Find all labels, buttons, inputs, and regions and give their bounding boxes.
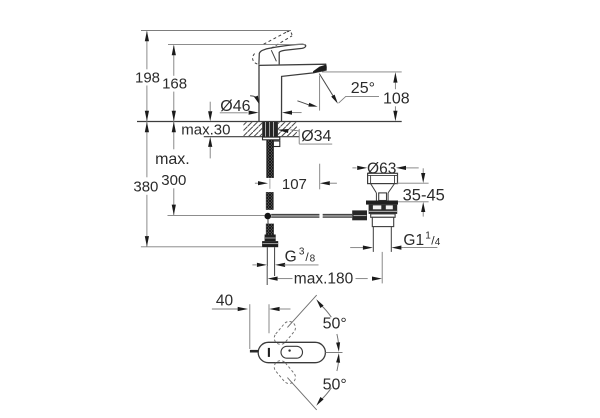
small arc arrow at faucet body left edge	[250, 96, 256, 97]
G3/8 hose end flange	[262, 241, 278, 247]
svg-text:50°: 50°	[323, 315, 347, 332]
drain tailpipe centerline extension	[381, 252, 383, 284]
svg-text:G11/4: G11/4	[403, 230, 440, 249]
faucet shank through countertop (dark)	[262, 122, 278, 137]
spout outlet dark wedge	[313, 65, 326, 73]
svg-text:108: 108	[383, 91, 410, 108]
small arc arrow at vertical line	[297, 101, 309, 105]
hose tail tube walls	[266, 247, 268, 285]
mounting tab right of rod	[273, 141, 279, 147]
drain body band	[371, 214, 395, 217]
dimension max30 line upper	[209, 102, 211, 112]
top view center tick	[268, 348, 270, 357]
drain side connector (dark)	[352, 210, 367, 220]
countertop hatching left of shank	[244, 122, 263, 136]
horizontal supply pipe	[271, 214, 319, 217]
countertop bottom line	[204, 136, 299, 138]
dimension 108 line	[394, 83, 396, 90]
drain neck taper	[371, 184, 395, 193]
dimension 40 line	[212, 308, 238, 310]
drain neck walls	[375, 193, 377, 201]
dia34 label box lines	[298, 129, 300, 144]
countertop hatching right of shank	[278, 122, 297, 136]
dimension 168 line	[173, 46, 175, 76]
107 extension line	[319, 164, 321, 190]
svg-text:50°: 50°	[323, 376, 347, 393]
drain push button	[379, 193, 387, 201]
supply hose upper segment (hatched)	[266, 192, 273, 210]
vertical reference line below spout tip	[319, 76, 321, 111]
40 extension line right (center)	[268, 304, 270, 333]
svg-text:380: 380	[133, 178, 158, 195]
junction dot on hose	[265, 213, 272, 220]
lever inner detail line	[271, 50, 276, 61]
dimension 35-45 extension lines	[397, 182, 429, 184]
G3/8 hose nut	[265, 235, 276, 242]
drain top cap	[368, 173, 398, 183]
dimension 35-45 line and arrows	[422, 168, 424, 173]
lever raised dashed arc at base	[253, 54, 259, 65]
25 degree stream line	[319, 74, 334, 99]
supply hose lower segment (hatched)	[266, 224, 273, 235]
top view capsule outline	[258, 342, 325, 362]
top view pivot dot	[288, 349, 290, 351]
lever handle (solid position)	[259, 44, 306, 64]
deck / countertop top line	[137, 121, 402, 123]
max300 bottom reference line to hose junction	[168, 214, 265, 216]
lower angle arc with arrows	[337, 361, 339, 371]
25 degree leader line	[339, 96, 380, 103]
dimension 198 line	[146, 32, 148, 70]
drain locknut with slots	[369, 205, 398, 214]
upper angle arc with arrows	[321, 305, 331, 317]
svg-text:168: 168	[162, 76, 187, 93]
mounting washer below counter	[263, 137, 280, 140]
svg-text:40: 40	[216, 293, 234, 310]
svg-text:198: 198	[135, 69, 160, 86]
dimension max180 line and arrows	[268, 277, 278, 281]
dashed lever pill rotated down 50	[272, 358, 298, 386]
dashed lever pill rotated up 50	[272, 319, 298, 347]
svg-text:25°: 25°	[351, 80, 375, 97]
G3/8 underline	[284, 264, 319, 266]
label dia34 leader arrow	[291, 130, 300, 131]
top view lever pill	[281, 346, 303, 358]
lever handle raised (dashed)	[264, 32, 287, 44]
drain basin flange (dark)	[366, 201, 398, 205]
dimension 107 right arrow	[320, 181, 330, 185]
dimension max180 left extension line	[266, 266, 268, 285]
svg-text:300: 300	[161, 172, 186, 189]
faucet body outline with spout	[259, 64, 326, 121]
108 extension line from spout	[322, 71, 402, 73]
centerline stub in break	[269, 179, 271, 189]
hose short link below dot	[267, 219, 269, 223]
drain tailpipe shoulder band	[372, 217, 393, 226]
horizontal axis line right	[326, 352, 343, 354]
50 degree line upper	[287, 295, 316, 327]
dimension 168 extension line	[168, 44, 305, 46]
dia46 right arrow	[282, 111, 292, 115]
svg-text:107: 107	[282, 176, 307, 193]
threaded rod below washer	[267, 140, 274, 178]
dimension 107 left arrow	[255, 182, 258, 184]
dimension 380 line	[146, 122, 148, 178]
40 extension line left	[249, 304, 251, 349]
svg-text:35-45: 35-45	[403, 187, 445, 205]
svg-text:G3/8: G3/8	[285, 246, 316, 265]
dimension max30 line lower	[209, 147, 211, 159]
dia63 dimension arrows and text	[352, 167, 356, 169]
G3/8 dimension arrows	[252, 264, 256, 266]
G1 1/4 underline	[403, 247, 437, 249]
svg-text:max.: max.	[155, 151, 190, 168]
svg-text:Ø34: Ø34	[301, 128, 331, 145]
top view left stub	[250, 350, 258, 353]
dimension 380 bottom reference line	[141, 246, 262, 248]
svg-text:Ø63: Ø63	[367, 160, 396, 177]
svg-text:max.180: max.180	[294, 270, 354, 287]
G1 1/4 dimension arrows	[350, 247, 363, 249]
svg-text:max.30: max.30	[181, 121, 230, 138]
dimension 198 extension line top	[141, 30, 291, 32]
dia46 underline	[220, 112, 248, 114]
dimension max300 line	[173, 122, 175, 150]
drain tailpipe walls	[372, 227, 374, 252]
50 degree line lower	[287, 378, 316, 410]
